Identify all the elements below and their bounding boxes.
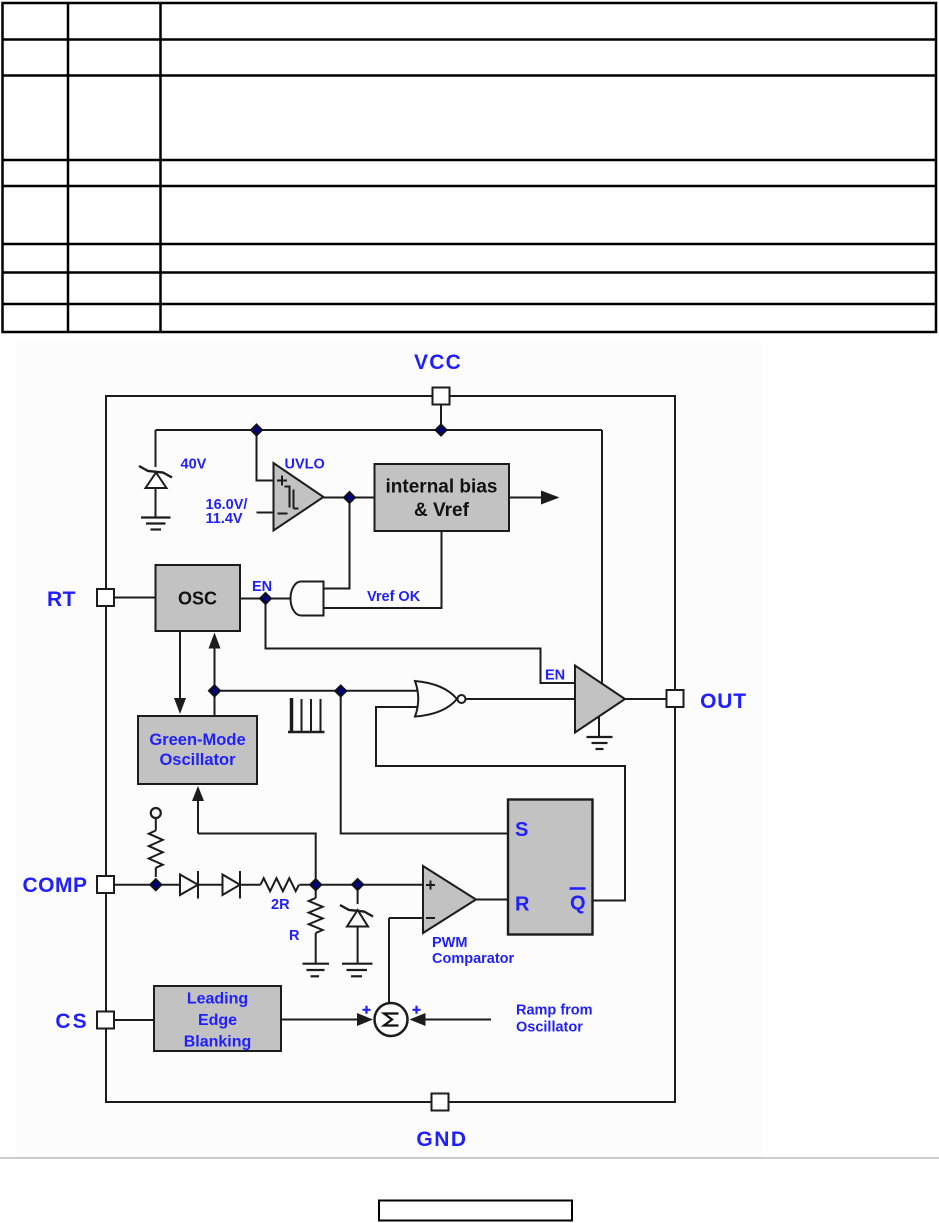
svg-text:Comparator: Comparator (432, 951, 515, 967)
svg-text:2R: 2R (271, 897, 290, 913)
svg-text:Edge: Edge (198, 1012, 237, 1029)
svg-text:EN: EN (545, 668, 565, 684)
svg-text:Vref OK: Vref OK (367, 589, 421, 605)
svg-text:S: S (515, 819, 528, 841)
svg-text:40V: 40V (181, 457, 207, 473)
svg-text:UVLO: UVLO (285, 457, 325, 473)
svg-text:Ramp from: Ramp from (516, 1003, 593, 1019)
svg-text:Q: Q (570, 893, 586, 915)
svg-text:Oscillator: Oscillator (516, 1020, 583, 1036)
svg-text:& Vref: & Vref (414, 500, 470, 521)
svg-text:OUT: OUT (700, 690, 747, 713)
svg-text:CS: CS (55, 1010, 88, 1033)
svg-text:PWM: PWM (432, 935, 467, 951)
svg-text:VCC: VCC (414, 351, 462, 374)
svg-text:R: R (289, 928, 300, 944)
svg-text:Leading: Leading (187, 991, 248, 1008)
svg-text:RT: RT (47, 588, 76, 611)
svg-text:internal bias: internal bias (386, 477, 498, 498)
svg-text:11.4V: 11.4V (206, 511, 243, 527)
svg-text:EN: EN (252, 579, 272, 595)
svg-text:GND: GND (416, 1128, 467, 1151)
svg-text:Green-Mode: Green-Mode (149, 731, 245, 749)
svg-text:COMP: COMP (23, 874, 88, 897)
svg-text:OSC: OSC (178, 589, 217, 609)
svg-text:Blanking: Blanking (184, 1034, 252, 1051)
svg-text:Oscillator: Oscillator (159, 751, 236, 769)
svg-text:R: R (515, 894, 530, 916)
